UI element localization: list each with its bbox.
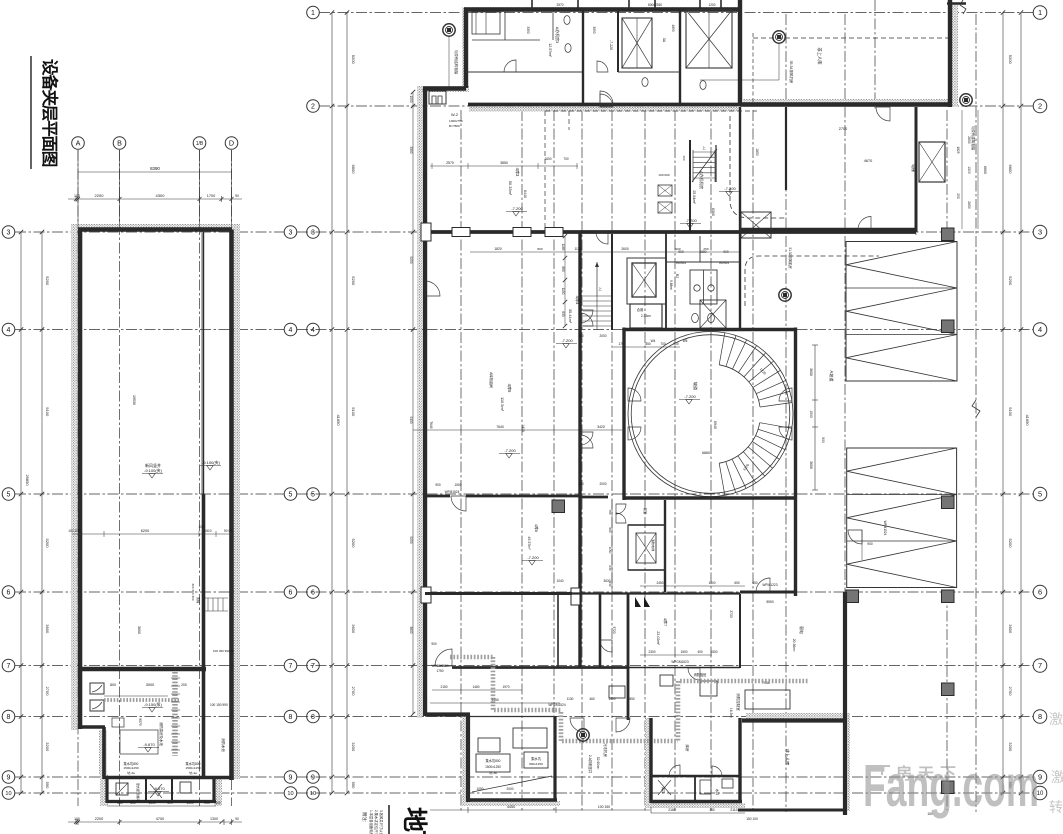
svg-text:41650: 41650 — [1025, 414, 1030, 426]
svg-text:2570: 2570 — [446, 161, 454, 165]
svg-text:3: 3 — [1038, 228, 1042, 237]
svg-text:库房: 库房 — [685, 745, 690, 753]
svg-text:3600: 3600 — [409, 626, 413, 633]
hall mid dims and doors — [413, 429, 622, 431]
svg-text:2600: 2600 — [621, 247, 629, 251]
svg-text:5200: 5200 — [45, 276, 50, 286]
circle room doors — [628, 388, 641, 401]
svg-text:9: 9 — [7, 775, 11, 782]
svg-text:300: 300 — [578, 482, 584, 486]
svg-text:2650: 2650 — [967, 201, 971, 209]
svg-text:W4: W4 — [651, 339, 656, 343]
svg-text:6: 6 — [1038, 588, 1042, 597]
svg-text:3600: 3600 — [1008, 624, 1013, 634]
svg-text:WFCM0924: WFCM0924 — [431, 664, 448, 668]
svg-text:550: 550 — [629, 697, 635, 701]
svg-text:2150: 2150 — [440, 685, 447, 689]
left plan top dims — [78, 171, 232, 173]
svg-text:6: 6 — [7, 590, 11, 597]
svg-text:150 100: 150 100 — [746, 817, 758, 821]
dashed boundary — [545, 110, 757, 112]
svg-text:5200: 5200 — [409, 256, 413, 263]
svg-text:7640: 7640 — [429, 421, 433, 429]
svg-text:2570: 2570 — [556, 3, 563, 7]
svg-text:1820: 1820 — [494, 247, 502, 251]
svg-text:5200: 5200 — [1008, 539, 1013, 549]
fang watermark — [863, 711, 1063, 819]
svg-text:附注:: 附注: — [361, 812, 368, 822]
svg-text:6940: 6940 — [713, 421, 717, 429]
svg-text:4450: 4450 — [507, 805, 515, 809]
svg-text:4库7: 4库7 — [663, 618, 669, 627]
svg-text:W0924: W0924 — [676, 261, 686, 265]
svg-text:2450: 2450 — [656, 581, 663, 585]
svg-text:集水坑: 集水坑 — [531, 756, 541, 761]
svg-text:水井: 水井 — [715, 789, 720, 795]
bottom-center rooms — [649, 718, 652, 803]
svg-text:5200: 5200 — [45, 539, 50, 549]
svg-text:4库6: 4库6 — [534, 524, 539, 532]
svg-text:地下一层平面图: 地下一层平面图 — [400, 807, 428, 834]
ramp box lower — [847, 448, 957, 588]
svg-text:8: 8 — [7, 714, 11, 721]
svg-text:300: 300 — [578, 334, 584, 338]
svg-text:900: 900 — [867, 542, 873, 546]
svg-text:5: 5 — [7, 492, 11, 499]
grid lines vertical left plan — [77, 150, 79, 806]
svg-text:22.02m²: 22.02m² — [656, 631, 660, 645]
svg-text:10: 10 — [5, 791, 11, 797]
svg-text:180: 180 — [709, 808, 715, 812]
svg-text:31.32排风机房: 31.32排风机房 — [788, 247, 793, 269]
svg-text:3850: 3850 — [500, 161, 508, 165]
svg-text:1750: 1750 — [436, 669, 443, 673]
big circle — [628, 332, 793, 497]
svg-text:2700: 2700 — [45, 687, 50, 697]
svg-text:3600: 3600 — [45, 624, 50, 634]
svg-text:3.各风井尺寸以设备图纸为准确定: 3.各风井尺寸以设备图纸为准确定 — [379, 810, 384, 834]
rows5-6 labels — [664, 500, 666, 592]
svg-text:10: 10 — [310, 791, 316, 797]
svg-text:900: 900 — [435, 483, 441, 487]
svg-text:2.集水坑定位尺寸详见水施图纸: 2.集水坑定位尺寸详见水施图纸 — [374, 810, 379, 834]
west inner dim line — [412, 92, 414, 714]
svg-text:1500: 1500 — [809, 410, 813, 418]
svg-text:250: 250 — [956, 193, 960, 199]
svg-text:2700: 2700 — [1008, 687, 1013, 697]
ramp box upper — [846, 242, 957, 382]
svg-text:4: 4 — [311, 327, 315, 334]
svg-text:-7.200: -7.200 — [685, 218, 697, 223]
svg-text:1185: 1185 — [561, 244, 565, 251]
svg-text:2300: 2300 — [648, 650, 655, 654]
break mark NE — [960, 0, 966, 14]
svg-text:1200: 1200 — [708, 3, 715, 7]
svg-text:1: 1 — [1038, 8, 1042, 17]
svg-text:3A: 3A — [662, 38, 666, 43]
svg-text:2000: 2000 — [599, 482, 606, 486]
svg-text:25.64m²: 25.64m² — [692, 190, 696, 204]
svg-text:4670: 4670 — [864, 159, 872, 163]
svg-text:1500: 1500 — [186, 801, 193, 805]
left plan walls — [78, 227, 232, 232]
svg-text:1.本层各设备用房做法详见设备图纸: 1.本层各设备用房做法详见设备图纸 — [369, 810, 374, 834]
svg-text:4300: 4300 — [156, 193, 166, 198]
svg-text:-7.200: -7.200 — [724, 186, 736, 191]
svg-text:A: A — [76, 139, 81, 148]
svg-text:400: 400 — [697, 650, 703, 654]
svg-text:49.37m²: 49.37m² — [527, 536, 531, 550]
left plan dim ticks — [74, 197, 78, 201]
svg-text:6440: 6440 — [523, 190, 527, 198]
svg-text:4: 4 — [1038, 325, 1042, 334]
svg-text:前室: 前室 — [643, 508, 648, 514]
svg-text:90: 90 — [235, 817, 239, 821]
center rooms rows6-7 — [425, 592, 572, 595]
svg-text:9: 9 — [311, 775, 315, 782]
svg-text:550: 550 — [45, 782, 50, 789]
svg-text:2650: 2650 — [967, 136, 971, 144]
stair core — [578, 232, 581, 668]
svg-text:消防控制室: 消防控制室 — [736, 693, 741, 711]
svg-text:50.33m²: 50.33m² — [508, 181, 513, 196]
svg-text:B=?800: B=?800 — [449, 124, 460, 128]
svg-text:6600: 6600 — [351, 165, 356, 175]
svg-text:3600: 3600 — [809, 368, 813, 376]
svg-text:600x2350: 600x2350 — [648, 3, 662, 7]
svg-text:35.34排风机房: 35.34排风机房 — [789, 61, 794, 84]
svg-text:300 300 300: 300 300 300 — [191, 583, 195, 600]
svg-text:1500: 1500 — [608, 697, 615, 701]
svg-text:1300: 1300 — [210, 817, 218, 821]
dashed vehicle path — [730, 116, 786, 218]
svg-text:1100: 1100 — [561, 288, 565, 295]
sump pits — [476, 754, 510, 772]
svg-text:激: 激 — [1049, 711, 1063, 727]
svg-text:8: 8 — [289, 714, 293, 721]
svg-text:4: 4 — [289, 327, 293, 334]
svg-text:7: 7 — [1038, 661, 1042, 670]
circle room walls — [622, 328, 625, 501]
svg-text:29850: 29850 — [25, 474, 30, 486]
fan stair upper — [719, 333, 725, 365]
svg-text:630: 630 — [608, 565, 612, 570]
SE block walls — [794, 500, 797, 596]
svg-text:900: 900 — [675, 247, 680, 251]
top edge wall stubs — [531, 0, 533, 9]
svg-text:2200: 2200 — [95, 817, 103, 821]
row3 doors — [596, 232, 608, 244]
svg-text:5200: 5200 — [351, 539, 356, 549]
left plan bottom rooms details — [116, 783, 128, 795]
svg-text:4库3: 4库3 — [515, 168, 521, 177]
svg-text:3600: 3600 — [809, 461, 813, 469]
svg-text:1500: 1500 — [454, 483, 461, 487]
svg-text:100 600: 100 600 — [658, 173, 669, 177]
svg-text:880: 880 — [561, 266, 565, 272]
svg-text:Fang.com: Fang.com — [863, 753, 1039, 819]
svg-text:1500x1250: 1500x1250 — [485, 765, 501, 769]
stair arrow — [596, 262, 598, 296]
svg-text:1150: 1150 — [608, 547, 612, 554]
svg-text:3350: 3350 — [526, 26, 530, 33]
svg-text:WFM1524: WFM1524 — [445, 490, 460, 494]
svg-text:消防值班: 消防值班 — [694, 672, 708, 677]
svg-text:4库5: 4库5 — [507, 384, 513, 393]
svg-text:630: 630 — [561, 311, 565, 317]
svg-text:9100: 9100 — [45, 407, 50, 417]
keynote bubble A — [443, 24, 455, 36]
svg-text:-7.200: -7.200 — [684, 394, 696, 399]
left plan level symbols — [149, 474, 155, 479]
svg-text:9100: 9100 — [351, 407, 356, 417]
keynote bubble D — [577, 729, 589, 741]
svg-text:非上人库: 非上人库 — [784, 749, 791, 766]
svg-text:800x1250: 800x1250 — [529, 762, 543, 766]
svg-text:900: 900 — [821, 437, 825, 443]
left plan west dims and row bubbles — [20, 232, 22, 793]
svg-text:-7.220: -7.220 — [609, 40, 613, 50]
svg-text:1850: 1850 — [755, 148, 759, 156]
svg-text:转: 转 — [1049, 799, 1063, 815]
svg-text:集水坑800: 集水坑800 — [486, 758, 501, 763]
grid lines horizontal — [319, 12, 1033, 14]
svg-text:A坡道: A坡道 — [829, 371, 835, 382]
svg-text:250: 250 — [204, 801, 210, 805]
svg-text:2.33m²: 2.33m² — [641, 314, 652, 318]
columns dark squares — [942, 228, 955, 241]
svg-text:600: 600 — [215, 801, 221, 805]
left plan interior dims — [72, 533, 232, 535]
svg-text:9: 9 — [289, 775, 293, 782]
svg-text:3600: 3600 — [137, 626, 141, 634]
svg-text:湿式报警阀间: 湿式报警阀间 — [136, 783, 141, 802]
svg-text:坑-3a: 坑-3a — [489, 770, 497, 775]
svg-text:900: 900 — [431, 642, 437, 646]
svg-text:9.68m²: 9.68m² — [669, 280, 673, 290]
inner dim column — [564, 236, 566, 326]
svg-text:新风竖井: 新风竖井 — [145, 462, 161, 468]
svg-text:10: 10 — [287, 791, 293, 797]
svg-text:3600: 3600 — [351, 624, 356, 634]
svg-text:5200: 5200 — [409, 536, 413, 543]
left plan hatch bands — [71, 224, 240, 730]
svg-text:8390: 8390 — [150, 166, 160, 171]
svg-text:2000: 2000 — [599, 334, 606, 338]
dim oblique ticks — [19, 230, 23, 234]
svg-text:12.5?m²: 12.5?m² — [548, 43, 552, 57]
svg-text:-7.200: -7.200 — [527, 555, 539, 560]
svg-text:2110: 2110 — [730, 808, 737, 812]
svg-text:6200: 6200 — [141, 529, 149, 533]
svg-text:1500x1250: 1500x1250 — [185, 766, 201, 770]
svg-text:-9.150(泵): -9.150(泵) — [144, 702, 163, 707]
svg-text:6860: 6860 — [702, 451, 710, 455]
top block interior — [466, 71, 583, 73]
svg-text:4850: 4850 — [671, 24, 675, 31]
svg-text:940: 940 — [608, 581, 612, 586]
svg-text:8: 8 — [1038, 712, 1042, 721]
svg-text:100 450 990 60: 100 450 990 60 — [213, 649, 234, 653]
bottom-left block walls — [425, 712, 470, 716]
svg-text:600: 600 — [130, 801, 136, 805]
svg-text:1700: 1700 — [207, 194, 215, 198]
svg-text:1: 1 — [311, 10, 315, 17]
left plan pump room details — [90, 683, 104, 694]
svg-text:550: 550 — [351, 782, 356, 789]
svg-text:1510: 1510 — [204, 529, 211, 533]
rows7-8 west dims — [432, 689, 522, 691]
svg-text:1460: 1460 — [472, 685, 479, 689]
east dims and row bubbles — [1002, 13, 1004, 794]
svg-text:100: 100 — [682, 155, 686, 160]
svg-text:-9.100(夹): -9.100(夹) — [202, 459, 221, 465]
svg-text:6: 6 — [311, 590, 315, 597]
svg-text:850: 850 — [645, 342, 651, 346]
svg-text:3: 3 — [289, 230, 293, 237]
svg-text:-9.670: -9.670 — [153, 786, 165, 791]
svg-text:-7.200: -7.200 — [561, 338, 573, 343]
left plan ladder — [207, 598, 209, 611]
keynote bubble C — [960, 94, 972, 106]
svg-text:WFM1524: WFM1524 — [883, 521, 887, 536]
svg-text:3200: 3200 — [45, 742, 50, 752]
svg-text:坑-4a: 坑-4a — [189, 770, 197, 775]
row3 wall — [423, 230, 916, 234]
svg-text:800: 800 — [537, 247, 542, 251]
svg-text:7: 7 — [7, 663, 11, 670]
svg-text:坑-3a: 坑-3a — [127, 770, 135, 775]
svg-text:6300: 6300 — [711, 208, 715, 216]
svg-text:1/B: 1/B — [196, 141, 204, 147]
grid lines vertical main plan — [460, 110, 462, 812]
svg-text:35.44m²: 35.44m² — [568, 309, 573, 324]
svg-text:A办机房3: A办机房3 — [555, 27, 560, 43]
svg-text:9100: 9100 — [409, 416, 413, 423]
left plan bottom dims — [107, 805, 216, 807]
svg-text:7: 7 — [311, 663, 315, 670]
svg-text:780: 780 — [608, 509, 612, 514]
svg-text:9100: 9100 — [1008, 407, 1013, 417]
svg-text:250: 250 — [117, 801, 123, 805]
svg-text:3730: 3730 — [729, 610, 733, 618]
svg-text:-7.200: -7.200 — [504, 448, 516, 453]
interior dims top mid — [430, 165, 578, 167]
fire control room — [745, 690, 790, 709]
svg-text:2700: 2700 — [351, 687, 356, 697]
svg-text:5: 5 — [1038, 490, 1042, 499]
svg-text:2160: 2160 — [668, 808, 676, 812]
fan stair lower — [760, 423, 792, 429]
svg-text:4库4: 4库4 — [575, 296, 581, 305]
svg-text:1050: 1050 — [476, 787, 483, 791]
svg-text:5550: 5550 — [766, 600, 774, 604]
svg-text:5: 5 — [289, 492, 293, 499]
svg-text:4: 4 — [7, 327, 11, 334]
svg-text:100 150: 100 150 — [598, 805, 610, 809]
svg-text:3950: 3950 — [592, 26, 596, 33]
svg-text:1130: 1130 — [574, 247, 581, 251]
row5 wall with door — [427, 495, 450, 498]
svg-text:消防电梯: 消防电梯 — [651, 539, 656, 551]
svg-text:电梯: 电梯 — [911, 164, 916, 172]
svg-text:WFM1223: WFM1223 — [762, 583, 777, 587]
svg-text:250: 250 — [703, 247, 708, 251]
svg-text:700: 700 — [563, 157, 569, 161]
svg-text:6600: 6600 — [983, 166, 987, 174]
svg-text:1500: 1500 — [680, 650, 687, 654]
svg-text:5200: 5200 — [1008, 55, 1013, 65]
svg-text:5200: 5200 — [1008, 276, 1013, 286]
svg-text:7: 7 — [289, 663, 293, 670]
svg-text:合用: 合用 — [637, 307, 644, 312]
svg-text:3420: 3420 — [597, 425, 605, 429]
svg-text:90 00: 90 00 — [224, 529, 232, 533]
svg-text:1600: 1600 — [544, 157, 551, 161]
svg-text:WFGM1523: WFGM1523 — [671, 660, 688, 664]
NE rooms — [915, 107, 918, 232]
svg-text:3720: 3720 — [612, 626, 616, 633]
svg-text:6: 6 — [289, 590, 293, 597]
bottom dims main — [430, 809, 650, 811]
svg-text:1300: 1300 — [967, 166, 971, 174]
stair2 rows2-3 — [689, 140, 691, 232]
west wall doors — [425, 281, 440, 296]
svg-text:1000x?50: 1000x?50 — [449, 119, 463, 123]
core toilets — [665, 232, 667, 330]
keynote bubble E — [779, 289, 791, 301]
svg-text:D: D — [229, 139, 234, 148]
svg-text:4700: 4700 — [156, 817, 164, 821]
svg-text:3000: 3000 — [146, 683, 154, 687]
svg-text:A办机机房: A办机机房 — [699, 171, 704, 189]
W-2 niche — [429, 91, 446, 104]
svg-text:3200: 3200 — [351, 742, 356, 752]
svg-text:B: B — [117, 139, 122, 148]
svg-text:500: 500 — [167, 801, 173, 805]
svg-text:7640: 7640 — [496, 425, 504, 429]
svg-text:风井: 风井 — [661, 787, 666, 793]
svg-text:2700: 2700 — [839, 127, 847, 131]
svg-text:WFGM1524: WFGM1524 — [548, 703, 565, 707]
svg-text:消防泵房及水池: 消防泵房及水池 — [159, 722, 164, 746]
svg-text:19530: 19530 — [132, 395, 136, 405]
svg-text:消防水池: 消防水池 — [221, 738, 226, 752]
left plan column bubbles — [72, 137, 85, 150]
svg-text:90: 90 — [235, 194, 239, 198]
svg-text:1500: 1500 — [710, 650, 717, 654]
svg-text:650: 650 — [752, 581, 758, 585]
svg-text:5200: 5200 — [351, 55, 356, 65]
svg-text:650: 650 — [734, 581, 740, 585]
svg-text:激: 激 — [1051, 769, 1063, 785]
svg-text:2-A排烟竖井: 2-A排烟竖井 — [588, 755, 593, 774]
svg-text:-9.670: -9.670 — [143, 742, 155, 747]
svg-text:W0924: W0924 — [719, 261, 729, 265]
svg-text:20.36m²: 20.36m² — [792, 639, 796, 653]
svg-text:坡道: 坡道 — [693, 382, 699, 390]
svg-text:非上人库: 非上人库 — [816, 47, 823, 65]
svg-text:3200: 3200 — [1008, 742, 1013, 752]
svg-text:4450: 4450 — [491, 698, 499, 702]
svg-text:爬梯: 爬梯 — [196, 597, 201, 604]
svg-text:A库机组间: A库机组间 — [489, 372, 494, 388]
svg-text:R2: R2 — [675, 274, 679, 278]
svg-text:与原有结构相接: 与原有结构相接 — [454, 50, 459, 75]
keynote bubble B — [773, 31, 785, 43]
svg-text:16.3m²: 16.3m² — [729, 708, 733, 719]
svg-text:1970: 1970 — [502, 685, 509, 689]
